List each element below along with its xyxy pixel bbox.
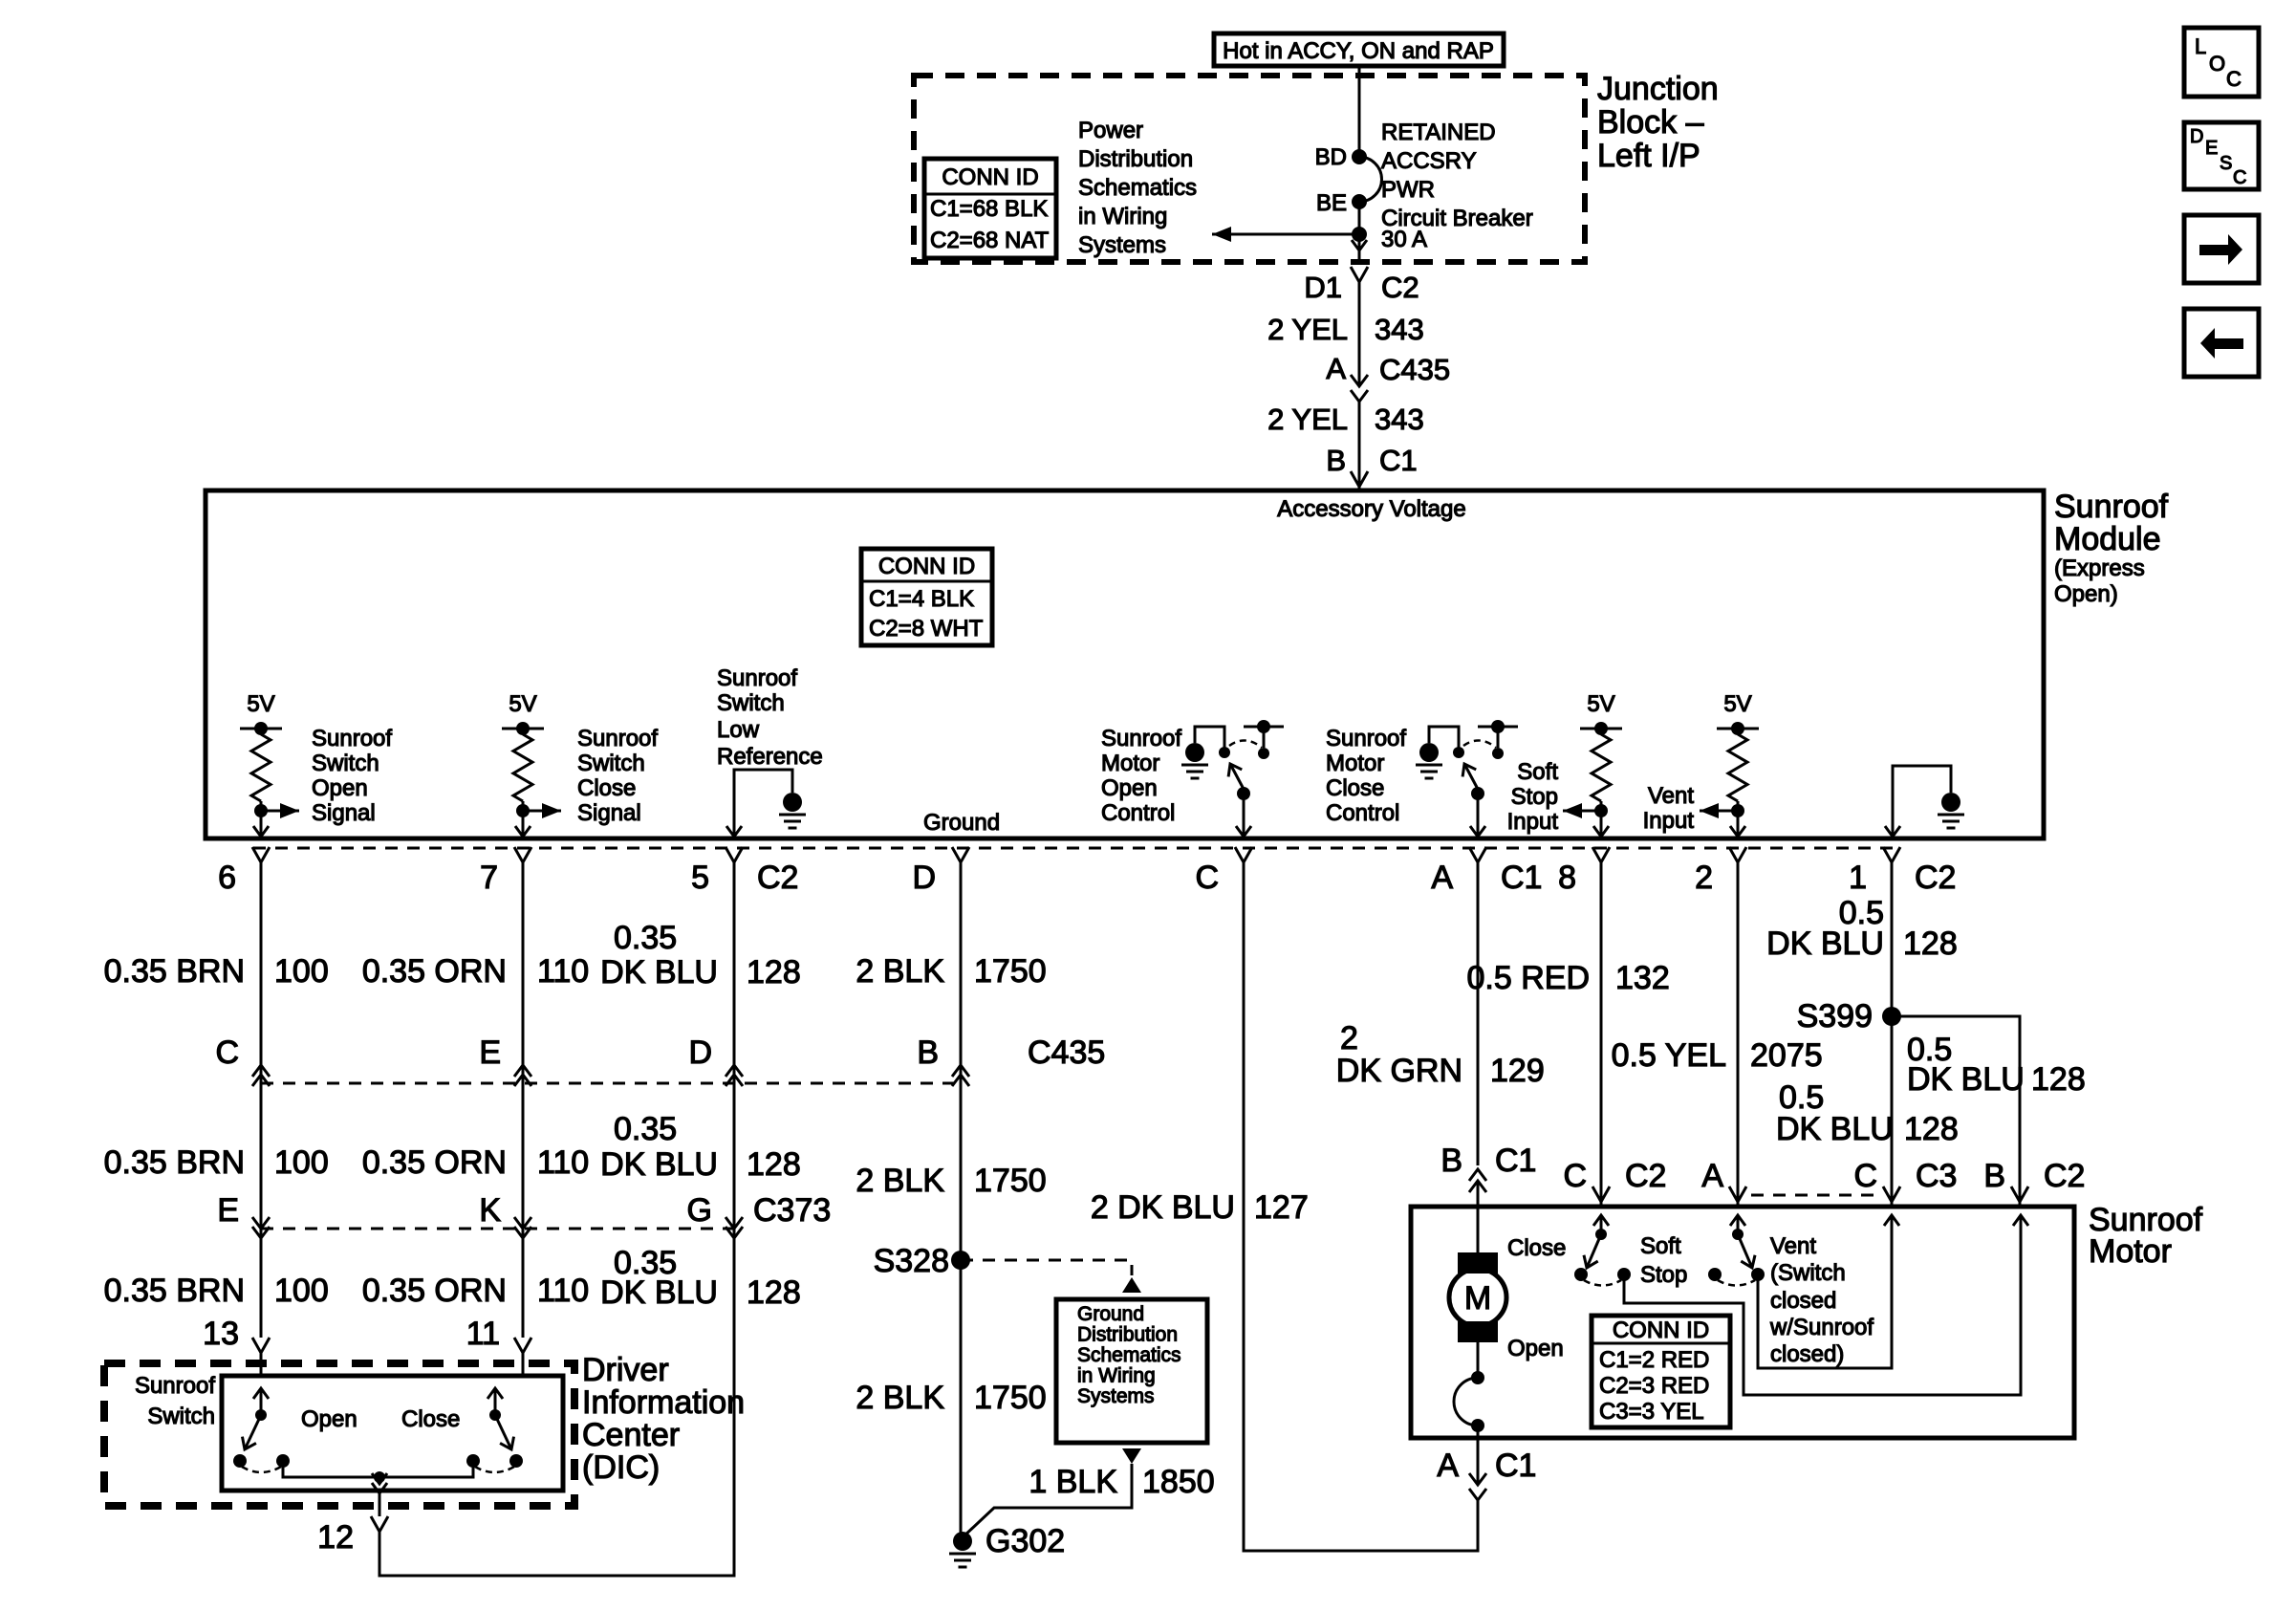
svg-text:Low: Low [717, 717, 760, 743]
wire arrow to Power Distribution Schematics [1352, 227, 1367, 242]
svg-text:2: 2 [1340, 1020, 1358, 1056]
nav box LOC [2184, 28, 2259, 97]
motor M symbol [1477, 1207, 1480, 1252]
svg-text:Close: Close [401, 1406, 460, 1432]
svg-text:Sunroof: Sunroof [717, 665, 797, 691]
svg-text:C373: C373 [753, 1192, 831, 1229]
svg-text:128: 128 [1903, 925, 1958, 962]
svg-text:Input: Input [1507, 809, 1559, 835]
motor connector dashed segment [1751, 1194, 1878, 1197]
svg-text:DK BLU: DK BLU [600, 1146, 718, 1183]
svg-text:C1=4 BLK: C1=4 BLK [869, 586, 974, 612]
module pin 7 connector [514, 847, 531, 862]
svg-text:100: 100 [274, 1273, 329, 1309]
soft stop wire to pin B [1624, 1215, 2021, 1395]
wire 0.35 DK BLU 128 (low reference) [379, 862, 734, 1576]
power feed label box: Hot in ACCY, ON and RAP [1214, 33, 1504, 66]
svg-text:C3: C3 [1916, 1158, 1957, 1194]
svg-text:Hot in ACCY, ON and RAP: Hot in ACCY, ON and RAP [1223, 38, 1494, 64]
svg-text:Sunroof: Sunroof [135, 1373, 215, 1399]
svg-text:0.5 RED: 0.5 RED [1467, 960, 1591, 996]
svg-text:B: B [1440, 1143, 1462, 1179]
svg-text:B: B [1326, 444, 1346, 477]
svg-text:Motor: Motor [1326, 751, 1384, 776]
svg-text:O: O [2209, 52, 2225, 76]
svg-text:343: 343 [1375, 313, 1424, 346]
svg-text:Driver: Driver [582, 1352, 669, 1388]
svg-text:5V: 5V [247, 691, 274, 717]
svg-text:5: 5 [691, 860, 709, 896]
svg-text:2 BLK: 2 BLK [856, 1380, 944, 1416]
module pin C connector [1235, 847, 1252, 862]
svg-text:0.5 YEL: 0.5 YEL [1612, 1037, 1726, 1074]
svg-text:DK BLU: DK BLU [600, 954, 718, 991]
splice S328 [951, 1251, 970, 1270]
svg-text:1850: 1850 [1142, 1464, 1215, 1500]
motor pin A [1729, 1186, 1746, 1202]
svg-text:A: A [1701, 1158, 1723, 1194]
arrow leaving junction block [1352, 240, 1367, 250]
svg-text:C3=3 YEL: C3=3 YEL [1599, 1399, 1704, 1425]
wire: 2 YEL 343 feed to sunroof module [1358, 282, 1361, 386]
nav box right-arrow [2184, 215, 2259, 283]
motor pin C / C2 [1592, 1186, 1610, 1202]
motor pin B / C2 [2011, 1186, 2028, 1202]
module pin 8 connector [1592, 847, 1610, 862]
svg-text:C2: C2 [757, 860, 798, 896]
svg-text:C: C [1563, 1158, 1587, 1194]
junction block dashed box [914, 76, 1585, 262]
svg-text:1750: 1750 [974, 1163, 1047, 1199]
svg-text:D: D [688, 1034, 712, 1071]
svg-text:Schematics: Schematics [1077, 1344, 1181, 1366]
svg-text:128: 128 [2031, 1061, 2086, 1098]
svg-text:C: C [1853, 1158, 1877, 1194]
svg-text:0.35 ORN: 0.35 ORN [362, 953, 507, 990]
wire: accessory power feed from Hot box [1358, 66, 1361, 157]
svg-text:A: A [1326, 352, 1346, 385]
svg-text:S: S [2220, 153, 2232, 174]
svg-text:S328: S328 [874, 1243, 949, 1279]
svg-text:Stop: Stop [1640, 1262, 1687, 1288]
svg-text:C435: C435 [1379, 353, 1450, 386]
connector chevron at module top [1351, 471, 1368, 487]
sunroof motor box [1411, 1207, 2074, 1438]
svg-text:100: 100 [274, 1144, 329, 1181]
sunroof motor CONN ID box [1592, 1316, 1730, 1427]
svg-text:1750: 1750 [974, 1380, 1047, 1416]
svg-text:Block –: Block – [1597, 104, 1704, 141]
svg-text:Switch: Switch [717, 690, 785, 716]
svg-text:Signal: Signal [312, 800, 376, 826]
svg-text:Stop: Stop [1511, 784, 1558, 810]
wire stub pin11 into DIC [522, 1353, 525, 1376]
sunroof module box [206, 490, 2044, 838]
wire 0.35 BRN 100 (sunroof switch open signal) [260, 862, 263, 1338]
ground G302 [953, 1532, 972, 1551]
svg-text:E: E [479, 1034, 501, 1071]
svg-text:Open): Open) [2054, 581, 2118, 607]
svg-text:Sunroof: Sunroof [312, 726, 392, 751]
svg-text:L: L [2195, 34, 2206, 58]
svg-text:Accessory Voltage: Accessory Voltage [1277, 496, 1465, 522]
svg-text:D: D [912, 860, 936, 896]
motor pin C / C3 [1883, 1186, 1900, 1202]
svg-text:Schematics: Schematics [1078, 175, 1197, 201]
svg-text:Open: Open [1101, 775, 1158, 801]
svg-text:B: B [917, 1034, 939, 1071]
svg-text:in Wiring: in Wiring [1078, 204, 1167, 229]
dashed reference to ground distribution [961, 1260, 1132, 1275]
svg-text:C: C [215, 1034, 239, 1071]
svg-text:Motor: Motor [1101, 751, 1159, 776]
svg-text:RETAINED: RETAINED [1381, 120, 1496, 145]
wire 2 BLK 1750 (ground) [960, 862, 963, 1539]
svg-text:S399: S399 [1797, 998, 1873, 1034]
svg-text:129: 129 [1490, 1053, 1545, 1089]
svg-text:C1: C1 [1495, 1143, 1536, 1179]
wire stub pin13 into DIC [260, 1353, 263, 1376]
svg-text:A: A [1431, 860, 1453, 896]
svg-text:C2=8 WHT: C2=8 WHT [869, 616, 984, 642]
svg-text:CONN ID: CONN ID [942, 164, 1038, 190]
svg-text:Close: Close [1326, 775, 1384, 801]
svg-text:M: M [1464, 1280, 1491, 1317]
svg-text:CONN ID: CONN ID [878, 554, 975, 579]
svg-text:343: 343 [1375, 403, 1424, 436]
svg-text:closed: closed [1770, 1288, 1836, 1314]
svg-text:128: 128 [747, 1146, 801, 1183]
splice S399 [1882, 1007, 1901, 1026]
pin 13 connector [252, 1338, 270, 1353]
svg-text:C2: C2 [1381, 271, 1419, 304]
svg-text:(DIC): (DIC) [582, 1449, 660, 1486]
svg-text:PWR: PWR [1381, 177, 1435, 203]
svg-text:C1: C1 [1379, 444, 1418, 477]
svg-text:1 BLK: 1 BLK [1029, 1464, 1117, 1500]
svg-text:C435: C435 [1028, 1034, 1105, 1071]
nav box DESC [2184, 122, 2259, 189]
svg-text:Vent: Vent [1648, 783, 1694, 809]
svg-text:BD: BD [1315, 144, 1347, 170]
sunroof switch inner box [222, 1376, 563, 1491]
svg-text:Open: Open [312, 775, 368, 801]
svg-text:2 BLK: 2 BLK [856, 953, 944, 990]
svg-text:1: 1 [1849, 860, 1867, 896]
svg-text:2 BLK: 2 BLK [856, 1163, 944, 1199]
svg-text:Close: Close [577, 775, 636, 801]
svg-text:C1=68 BLK: C1=68 BLK [930, 196, 1048, 222]
svg-text:Close: Close [1507, 1235, 1566, 1261]
wire 0.35 ORN 110 (sunroof switch close signal) [522, 862, 525, 1338]
svg-text:Sunroof: Sunroof [1101, 726, 1181, 751]
svg-text:5V: 5V [509, 691, 536, 717]
svg-text:Sunroof: Sunroof [577, 726, 658, 751]
svg-text:12: 12 [317, 1519, 354, 1556]
svg-text:0.35 BRN: 0.35 BRN [104, 1144, 245, 1181]
wire 0.5 DK BLU 128 (pin 1) [1891, 862, 1894, 1207]
svg-text:128: 128 [747, 1274, 801, 1311]
wire 0.5 YEL 2075 (vent) [1737, 862, 1740, 1207]
module pin 5 connector [726, 847, 743, 862]
svg-text:100: 100 [274, 953, 329, 990]
driver information center dashed box [104, 1363, 574, 1506]
svg-text:110: 110 [537, 1273, 589, 1309]
motor breaker contacts [1477, 1342, 1480, 1374]
svg-text:DK BLU: DK BLU [1766, 925, 1884, 962]
wire stub pin 12 [379, 1491, 381, 1516]
svg-text:C2=3 RED: C2=3 RED [1599, 1373, 1709, 1399]
svg-text:2 YEL: 2 YEL [1267, 403, 1348, 436]
svg-text:Systems: Systems [1077, 1385, 1155, 1407]
svg-text:5V: 5V [1723, 691, 1751, 717]
svg-text:Ground: Ground [923, 810, 1000, 836]
svg-text:closed): closed) [1770, 1341, 1844, 1367]
svg-text:128: 128 [1904, 1111, 1959, 1147]
svg-text:0.35: 0.35 [614, 920, 677, 956]
svg-text:Distribution: Distribution [1077, 1324, 1178, 1346]
svg-text:Center: Center [582, 1417, 680, 1453]
svg-text:128: 128 [747, 954, 801, 991]
svg-text:in Wiring: in Wiring [1077, 1365, 1156, 1387]
svg-text:Soft: Soft [1517, 759, 1558, 785]
svg-text:C2: C2 [2044, 1158, 2085, 1194]
connector at junction block exit [1351, 267, 1368, 282]
svg-text:30 A: 30 A [1381, 227, 1427, 252]
module connector dashed line [253, 847, 1897, 850]
DIC common wire [283, 1461, 473, 1477]
pin 11 connector [514, 1338, 531, 1353]
svg-text:0.35 ORN: 0.35 ORN [362, 1273, 507, 1309]
svg-text:5V: 5V [1587, 691, 1614, 717]
svg-text:BE: BE [1316, 190, 1347, 216]
DIC open switch [255, 1409, 267, 1421]
module pin 2 connector [1729, 847, 1746, 862]
svg-text:2 YEL: 2 YEL [1267, 313, 1348, 346]
svg-text:C1: C1 [1501, 860, 1542, 896]
svg-text:ACCSRY: ACCSRY [1381, 148, 1477, 174]
svg-text:Motor: Motor [2089, 1233, 2172, 1270]
svg-text:110: 110 [537, 1144, 589, 1181]
svg-text:8: 8 [1558, 860, 1576, 896]
svg-text:(Switch: (Switch [1770, 1260, 1846, 1286]
internal ground hook at module pin 1 [1893, 766, 1951, 836]
svg-text:7: 7 [480, 860, 498, 896]
svg-text:Input: Input [1643, 808, 1695, 834]
sunroof module CONN ID box [861, 549, 992, 645]
svg-text:G302: G302 [986, 1523, 1065, 1559]
svg-text:Vent: Vent [1770, 1233, 1816, 1259]
wire 2 DK BLU 127 (sunroof motor open control) [1244, 862, 1478, 1551]
wire 1 BLK 1850 [963, 1464, 1132, 1537]
svg-text:Module: Module [2054, 521, 2161, 557]
svg-text:K: K [479, 1192, 501, 1229]
svg-text:C: C [2226, 67, 2242, 91]
svg-text:D: D [2190, 126, 2203, 147]
svg-text:E: E [217, 1192, 239, 1229]
svg-text:0.35 BRN: 0.35 BRN [104, 1273, 245, 1309]
in-line connector C435 row [261, 1082, 961, 1085]
svg-text:w/Sunroof: w/Sunroof [1769, 1315, 1874, 1340]
module pin 6 connector [252, 847, 270, 862]
svg-text:A: A [1437, 1448, 1459, 1484]
nav box left-arrow [2184, 309, 2259, 377]
svg-text:0.35: 0.35 [614, 1111, 677, 1147]
svg-text:Distribution: Distribution [1078, 146, 1193, 172]
svg-text:11: 11 [466, 1316, 500, 1352]
svg-text:Switch: Switch [577, 751, 645, 776]
svg-text:Junction: Junction [1597, 71, 1719, 107]
svg-text:CONN ID: CONN ID [1613, 1317, 1709, 1343]
module pin 1 connector [1883, 847, 1900, 862]
circuit breaker 30A: BD/BE terminals and arc [1352, 149, 1367, 164]
wire 2 DK GRN 129 (sunroof motor close control) [1477, 862, 1480, 1165]
svg-text:Systems: Systems [1078, 232, 1166, 258]
svg-text:Soft: Soft [1640, 1233, 1681, 1259]
svg-text:Signal: Signal [577, 800, 641, 826]
svg-text:Ground: Ground [1077, 1303, 1144, 1325]
svg-text:Information: Information [582, 1384, 745, 1421]
svg-text:2075: 2075 [1750, 1037, 1823, 1074]
svg-text:1750: 1750 [974, 953, 1047, 990]
svg-text:DK BLU: DK BLU [1776, 1111, 1894, 1147]
svg-text:Reference: Reference [717, 744, 823, 770]
DIC close switch [489, 1409, 501, 1421]
svg-text:110: 110 [537, 953, 589, 990]
svg-text:13: 13 [203, 1316, 239, 1352]
svg-text:C1: C1 [1495, 1448, 1536, 1484]
svg-text:Sunroof: Sunroof [2054, 489, 2169, 525]
svg-text:(Express: (Express [2054, 555, 2145, 581]
svg-text:DK BLU: DK BLU [1907, 1061, 2025, 1098]
svg-text:Control: Control [1101, 800, 1175, 826]
svg-text:127: 127 [1254, 1189, 1309, 1226]
in-line connector B C1 [1469, 1169, 1486, 1181]
module pin A connector [1469, 847, 1486, 862]
svg-text:C2: C2 [1915, 860, 1956, 896]
svg-text:132: 132 [1615, 960, 1670, 996]
svg-text:DK GRN: DK GRN [1336, 1053, 1462, 1089]
svg-text:Open: Open [1507, 1336, 1564, 1361]
svg-text:Left I/P: Left I/P [1597, 138, 1700, 174]
svg-text:Open: Open [301, 1406, 357, 1432]
svg-text:6: 6 [218, 860, 236, 896]
svg-text:Sunroof: Sunroof [1326, 726, 1406, 751]
junction block CONN ID box [924, 159, 1056, 258]
arrow from note box to G302 wire [1122, 1448, 1141, 1464]
svg-text:2: 2 [1695, 860, 1713, 896]
wire 0.5 RED 132 (soft stop) [1600, 862, 1603, 1207]
wire 0.5 DK BLU 128 branch to motor pin B [1892, 1016, 2020, 1207]
svg-text:C: C [2233, 167, 2246, 188]
svg-text:DK BLU: DK BLU [600, 1274, 718, 1311]
svg-text:Switch: Switch [147, 1404, 215, 1429]
svg-text:C1=2 RED: C1=2 RED [1599, 1347, 1709, 1373]
svg-text:E: E [2205, 138, 2218, 159]
module pin D connector [952, 847, 969, 862]
svg-text:0.35 BRN: 0.35 BRN [104, 953, 245, 990]
svg-text:D1: D1 [1304, 271, 1342, 304]
svg-text:C: C [1195, 860, 1219, 896]
svg-text:C2: C2 [1625, 1158, 1666, 1194]
ground distribution schematics note box [1056, 1299, 1207, 1443]
svg-text:C2=68 NAT: C2=68 NAT [930, 228, 1050, 253]
svg-text:0.35 ORN: 0.35 ORN [362, 1144, 507, 1181]
pin 12 connector [371, 1516, 388, 1532]
in-line connector C373 row [261, 1228, 734, 1230]
svg-text:Power: Power [1078, 118, 1143, 143]
vent wire to pin C C3 [1758, 1215, 1892, 1368]
svg-text:Control: Control [1326, 800, 1399, 826]
svg-text:G: G [687, 1192, 712, 1229]
svg-text:B: B [1983, 1158, 2005, 1194]
svg-text:2 DK BLU: 2 DK BLU [1091, 1189, 1235, 1226]
svg-text:Switch: Switch [312, 751, 379, 776]
